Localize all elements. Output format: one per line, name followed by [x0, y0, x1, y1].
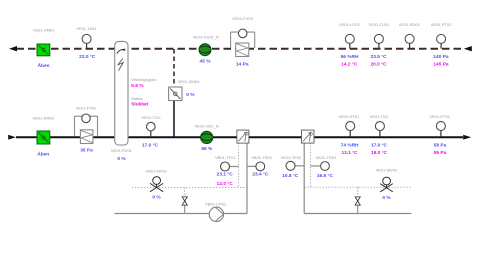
wire cooling circuit bottom line — [304, 213, 411, 215]
wire exhaust duct left arrow — [9, 46, 17, 51]
svg-text:74 %RH: 74 %RH — [341, 142, 359, 148]
filter FV01 — [80, 130, 93, 144]
wire cooling check-valve branch lower — [357, 205, 359, 213]
fan VI01_R (supply, green circle) — [201, 131, 213, 143]
sensor TF02 — [286, 161, 295, 170]
wire cooling circuit solid vertical (coil left port) — [303, 143, 305, 214]
wire cooling check-valve branch upper dashed — [357, 187, 359, 197]
svg-text:140 Pa: 140 Pa — [433, 54, 449, 60]
sensor TA01 — [82, 34, 91, 48]
svg-text:10.8 °C: 10.8 °C — [282, 173, 299, 179]
damper SM01 (exhaust, green) — [37, 44, 50, 56]
wire heating circuit solid vertical (coil right port) — [246, 143, 248, 214]
sensor TF01 — [221, 162, 230, 171]
svg-text:VK01-TR02: VK01-TR02 — [315, 155, 337, 160]
sensor PT02 — [437, 34, 446, 48]
sensor TR02 — [321, 162, 330, 171]
wire sensor stub TR01 — [247, 165, 256, 167]
svg-text:20.0 °C: 20.0 °C — [370, 61, 387, 67]
check valve cooling circuit — [355, 197, 360, 205]
wire heating check-valve branch lower — [184, 205, 186, 213]
svg-text:VE01-TI01: VE01-TI01 — [369, 114, 389, 119]
wire supply duct (middle solid line) — [16, 136, 463, 138]
sensor HT02 — [345, 34, 354, 48]
svg-text:Slukket: Slukket — [131, 102, 148, 108]
svg-text:Virkningsgrad: Virkningsgrad — [131, 77, 155, 82]
svg-text:58 Pa: 58 Pa — [434, 142, 447, 148]
heat exchanger RV01 — [115, 41, 128, 145]
damper SM04 (recirculation) — [169, 87, 182, 101]
svg-text:VE01-SM04: VE01-SM04 — [178, 79, 200, 84]
check valve heating circuit — [182, 197, 187, 205]
svg-text:Åben: Åben — [38, 62, 50, 69]
pump CP01 — [209, 207, 223, 221]
valve MV01 with actuator — [150, 177, 163, 192]
svg-text:VE01-FV01: VE01-FV01 — [76, 106, 97, 111]
svg-text:23.5 °C: 23.5 °C — [371, 54, 388, 60]
svg-text:VE01-FV02: VE01-FV02 — [232, 16, 253, 21]
svg-text:5.8 %: 5.8 % — [131, 83, 144, 89]
wire supply duct right arrow — [463, 135, 471, 140]
filter FV02 pressure bracket — [231, 29, 255, 48]
svg-text:VE01-PT01: VE01-PT01 — [429, 114, 450, 119]
svg-text:23.4 °C: 23.4 °C — [252, 172, 269, 178]
svg-text:VE01-RD01: VE01-RD01 — [399, 22, 421, 27]
svg-text:VE01-SM01: VE01-SM01 — [33, 28, 55, 33]
svg-text:0 %: 0 % — [186, 92, 195, 98]
svg-text:VB01-TF01: VB01-TF01 — [215, 155, 236, 160]
wire sensor stub TF01 — [229, 166, 239, 168]
svg-text:35 Pa: 35 Pa — [80, 148, 93, 154]
wire heating circuit dotted vertical (coil left port) — [238, 143, 240, 188]
filter FV01 pressure bracket — [75, 114, 98, 137]
fan VU01_R (exhaust, green circle) — [199, 44, 211, 56]
svg-text:22.0 °C: 22.0 °C — [79, 54, 96, 60]
svg-text:23.1 °C: 23.1 °C — [217, 172, 234, 178]
svg-text:19.0 °C: 19.0 °C — [371, 150, 388, 156]
svg-text:0 %: 0 % — [382, 195, 391, 201]
svg-text:145 Pa: 145 Pa — [433, 61, 449, 67]
svg-text:VE01-HT01: VE01-HT01 — [338, 114, 360, 119]
svg-text:16.5 °C: 16.5 °C — [317, 173, 334, 179]
valve MV02 with actuator — [380, 177, 393, 192]
wire sensor stub TF02 — [295, 165, 304, 167]
svg-text:14 Pa: 14 Pa — [236, 61, 249, 67]
wire cooling circuit dotted return line — [305, 186, 412, 188]
sensor TU01 — [374, 34, 383, 48]
wire recirculation drop (solid lower part) — [173, 101, 175, 138]
wire recirculation drop (dashed upper part) — [173, 49, 175, 87]
sensor RD01 — [405, 34, 414, 48]
svg-text:VK01-TF02: VK01-TF02 — [281, 155, 302, 160]
svg-text:17.0 °C: 17.0 °C — [371, 142, 388, 148]
svg-text:55 Pa: 55 Pa — [434, 150, 447, 156]
sensor TI01 — [375, 122, 384, 138]
svg-text:VE01-HT02: VE01-HT02 — [339, 22, 361, 27]
damper SM02 (supply, green) — [37, 131, 50, 144]
wire heating circuit bottom line — [115, 213, 248, 215]
wire cooling circuit dotted vertical (coil right port) — [310, 143, 312, 187]
svg-text:VB01-CP01: VB01-CP01 — [205, 202, 227, 207]
svg-text:VE01-PT02: VE01-PT02 — [431, 22, 452, 27]
svg-text:VB01-MV01: VB01-MV01 — [145, 169, 167, 174]
svg-text:56 %RH: 56 %RH — [341, 54, 359, 60]
svg-text:12.0 °C: 12.0 °C — [217, 181, 234, 187]
svg-text:VK01-MV02: VK01-MV02 — [376, 168, 398, 173]
svg-text:VE01-VU01_R: VE01-VU01_R — [193, 35, 219, 40]
svg-text:VE01-RV01: VE01-RV01 — [111, 148, 133, 153]
svg-text:56 %: 56 % — [201, 146, 213, 152]
heating coil VV01 box — [237, 130, 249, 143]
svg-text:13.1 °C: 13.1 °C — [341, 150, 358, 156]
svg-text:45 %: 45 % — [200, 58, 212, 64]
svg-text:VB01-TR01: VB01-TR01 — [251, 155, 273, 160]
filter FV02 — [236, 43, 249, 57]
wire supply duct left arrow — [8, 135, 16, 140]
svg-text:0 %: 0 % — [117, 156, 126, 162]
wire heating check-valve branch upper dashed — [184, 188, 186, 197]
svg-text:0 %: 0 % — [152, 195, 161, 201]
wire exhaust duct (top dashed line) — [17, 48, 464, 50]
svg-text:VE01-TI02: VE01-TI02 — [141, 115, 161, 120]
sensor TR01 — [256, 162, 265, 171]
wire heating circuit dotted return line — [132, 187, 247, 189]
svg-text:VE01-TU01: VE01-TU01 — [369, 22, 391, 27]
wire exhaust duct right arrow — [464, 46, 472, 51]
svg-text:VE01-SM02: VE01-SM02 — [32, 116, 54, 121]
cooling coil VK01 box — [302, 130, 315, 143]
svg-text:VE01-TA01: VE01-TA01 — [76, 26, 97, 31]
svg-text:17.0 °C: 17.0 °C — [142, 142, 159, 148]
sensor TI02 — [147, 122, 156, 137]
sensor PT01 — [436, 122, 445, 138]
svg-text:VE01-VI01_R: VE01-VI01_R — [194, 124, 219, 129]
svg-text:Åben: Åben — [37, 150, 49, 157]
svg-text:Status: Status — [131, 96, 142, 101]
sensor HT01 — [346, 122, 355, 138]
wire sensor stub TR02 — [311, 165, 321, 167]
svg-text:14.2 °C: 14.2 °C — [341, 61, 358, 67]
